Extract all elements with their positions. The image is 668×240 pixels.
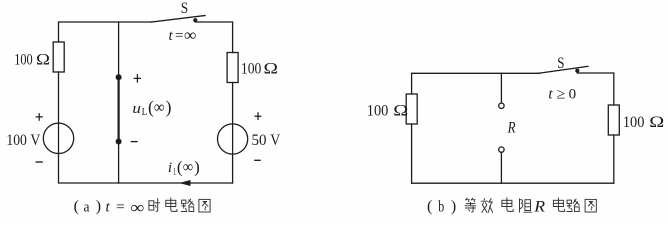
svg-text:(: ( bbox=[74, 198, 79, 215]
voltage source 50V (a): circle bbox=[218, 124, 248, 154]
svg-text:Ω: Ω bbox=[649, 114, 664, 131]
terminal: (b) upper open terminal bbox=[499, 103, 504, 108]
label minus of 100V source bbox=[36, 161, 43, 163]
caption (a) hanzi: tu (diagram) bbox=[199, 199, 210, 212]
caption (b) latin part: ( b ) bbox=[427, 198, 456, 215]
switch S (a) contact dot bbox=[193, 18, 197, 22]
wire: (b) middle stub lower bbox=[500, 152, 502, 183]
svg-text:(: ( bbox=[427, 198, 432, 215]
label 100 ohm (b) right bbox=[623, 114, 664, 131]
svg-text:): ) bbox=[96, 198, 101, 215]
wire: (a) inductor short segment (bold) between nodes bbox=[117, 77, 119, 142]
svg-text:u: u bbox=[132, 101, 141, 117]
svg-text:a: a bbox=[84, 199, 91, 215]
svg-text:t: t bbox=[169, 28, 174, 44]
caption (b) label R italic bbox=[533, 198, 545, 215]
svg-text:L: L bbox=[142, 107, 147, 118]
svg-text:Ω: Ω bbox=[393, 102, 408, 119]
resistor 100ohm (b) right bbox=[608, 105, 619, 135]
caption (b) hanzi: tu (diagram) bbox=[585, 199, 596, 212]
svg-text:V: V bbox=[270, 132, 281, 149]
resistor 100ohm (b) left bbox=[406, 94, 417, 124]
label S (b) bbox=[557, 55, 564, 72]
wire: (b) left vertical below resistor bbox=[411, 124, 413, 183]
voltage source 100V (a): circle, wire passes through bbox=[43, 123, 73, 153]
resistor 100ohm (a) left bbox=[53, 42, 64, 72]
label 100 ohm (b) left bbox=[367, 102, 409, 119]
switch S (a): open blade bbox=[152, 16, 206, 23]
svg-text:): ) bbox=[451, 198, 456, 215]
label i1(infinity) bbox=[168, 157, 200, 178]
label R (b) bbox=[507, 120, 516, 137]
label 100 ohm (a) right bbox=[241, 60, 278, 77]
label 100 ohm (a) left bbox=[14, 52, 50, 69]
caption (a) hanzi: shi (time) bbox=[149, 199, 160, 212]
label plus of 50V source bbox=[255, 112, 262, 120]
svg-text:100: 100 bbox=[623, 114, 645, 131]
node: (a) lower node dot bbox=[116, 139, 122, 145]
label S (a) bbox=[181, 0, 188, 17]
label t=infinity (a) bbox=[169, 25, 197, 44]
wire: circuit (a) top wire, left segment to switch bbox=[59, 22, 153, 42]
label uL(infinity) bbox=[132, 97, 171, 118]
svg-text:≥: ≥ bbox=[557, 86, 566, 102]
svg-text:=: = bbox=[116, 200, 125, 216]
caption (b) hanzi: zu (resistance) bbox=[520, 199, 532, 212]
caption (a) latin part: ( a ) t = infinity bbox=[74, 198, 145, 217]
terminal: (b) lower open terminal bbox=[499, 147, 504, 152]
label minus of 50V source bbox=[254, 159, 261, 161]
svg-text:1: 1 bbox=[173, 167, 176, 178]
svg-text:S: S bbox=[557, 55, 564, 72]
wire: (a) right vertical, resistor to source bbox=[232, 83, 234, 125]
node: (a) upper node dot bbox=[116, 74, 122, 80]
svg-text:∞: ∞ bbox=[130, 198, 144, 217]
svg-text:): ) bbox=[194, 158, 200, 177]
svg-text:V: V bbox=[30, 132, 41, 149]
wire: (a) middle branch vertical bbox=[118, 22, 120, 183]
svg-text:t: t bbox=[548, 86, 553, 102]
caption (b) hanzi: deng (equivalent-1) bbox=[465, 198, 476, 212]
svg-text:t: t bbox=[106, 200, 111, 216]
caption (a) hanzi: dian (electric) bbox=[166, 198, 177, 212]
svg-text:100: 100 bbox=[241, 60, 262, 77]
svg-text:100: 100 bbox=[6, 132, 27, 149]
resistor 100ohm (a) right bbox=[227, 53, 238, 83]
label 50 V bbox=[252, 132, 281, 149]
wire: (b) right vertical below resistor bbox=[613, 135, 615, 183]
wire: (a) left vertical, source to bottom corner bbox=[59, 153, 119, 183]
caption (b) hanzi: dian (electric) bbox=[502, 198, 513, 212]
svg-text:b: b bbox=[438, 198, 444, 215]
svg-text:0: 0 bbox=[569, 86, 577, 102]
label plus of uL bbox=[134, 74, 141, 83]
svg-text:S: S bbox=[181, 0, 188, 17]
caption (b) hanzi: xiao (equivalent-2) bbox=[481, 199, 492, 213]
svg-text:∞: ∞ bbox=[183, 157, 193, 176]
svg-text:50: 50 bbox=[252, 132, 267, 149]
wire: circuit (a) top wire, right segment from switch to right corner bbox=[195, 22, 232, 53]
caption (b) hanzi: lu (road) bbox=[567, 199, 580, 211]
svg-text:Ω: Ω bbox=[264, 60, 279, 77]
wire: (a) left vertical, resistor to source bbox=[58, 72, 60, 123]
switch S (b): open blade bbox=[539, 66, 589, 73]
wire: (b) bottom wire bbox=[412, 182, 614, 184]
wire: circuit (b) top wire right segment bbox=[577, 73, 614, 105]
svg-text:R: R bbox=[507, 120, 516, 137]
svg-text:100: 100 bbox=[367, 102, 389, 119]
caption (b) hanzi: dian (electric) second bbox=[553, 198, 564, 212]
label plus of 100V source bbox=[36, 113, 43, 121]
arrow: current i1 direction arrow on bottom wire bbox=[179, 180, 191, 186]
svg-text:): ) bbox=[166, 97, 172, 117]
caption (a) hanzi: lu (road) bbox=[181, 199, 194, 211]
label 100 V bbox=[6, 132, 41, 149]
wire: (a) right vertical, bottom corner to source bbox=[232, 154, 234, 183]
wire: circuit (b) top wire left segment bbox=[412, 73, 539, 94]
label minus of uL bbox=[131, 141, 138, 143]
svg-text:=: = bbox=[175, 28, 184, 44]
svg-text:i: i bbox=[168, 160, 172, 176]
svg-text:R: R bbox=[533, 198, 545, 215]
svg-text:∞: ∞ bbox=[154, 97, 165, 116]
svg-text:Ω: Ω bbox=[36, 52, 50, 69]
wire: (b) middle stub upper bbox=[500, 73, 502, 103]
switch S (b) contact dot bbox=[575, 69, 579, 73]
label t>=0 (b) bbox=[548, 86, 576, 102]
svg-text:∞: ∞ bbox=[184, 25, 196, 44]
svg-text:100: 100 bbox=[14, 52, 33, 69]
wire: (a) bottom wire right half bbox=[119, 182, 233, 184]
